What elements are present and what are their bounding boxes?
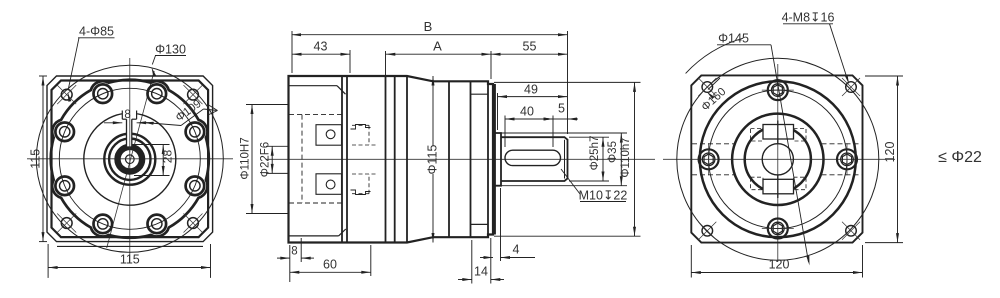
shaft bore ring [118,147,143,172]
hidden cavity bottom [289,202,342,204]
svg-text:4: 4 [513,243,520,257]
corner hole BL (4-phi8.5) [61,218,72,229]
svg-text:40: 40 [520,105,534,119]
svg-text:Φ110H7: Φ110H7 [239,137,251,179]
dim ext shaft end [567,31,569,134]
hidden bore line top [692,143,735,145]
label M10 leader [561,169,580,194]
dim 8 keyway [104,122,122,124]
output flange right face band [494,84,496,235]
left view square flange outline [47,76,213,242]
lower keyway mask [763,179,794,194]
socket screw bottom [768,219,788,239]
dim 115 left [42,76,44,242]
dim 60 ext [370,245,372,276]
left view bottom lip line [57,245,203,247]
svg-text:Φ145: Φ145 [718,32,749,46]
svg-text:120: 120 [769,258,790,272]
screw boss bottom [316,174,342,195]
svg-text:≤ Φ22: ≤ Φ22 [938,149,982,166]
svg-text:8: 8 [124,109,130,121]
upper keyway mask [763,125,794,140]
hub circle outer [84,113,176,205]
svg-text:A: A [433,39,442,54]
svg-text:8: 8 [291,246,297,258]
dim phi25h7 [602,137,604,181]
svg-text:5: 5 [558,102,565,116]
dim 43 ext right [349,50,351,73]
right corner hole BL (M8) [702,226,713,237]
dim 49 [498,96,568,98]
dim A ext [385,51,387,76]
corner hole TR (4-phi8.5) [188,89,199,100]
dim 40 ext [504,116,506,148]
svg-text:115: 115 [29,149,43,169]
dim A [386,53,491,55]
hidden step top [351,125,371,130]
dim 120 right [897,76,899,243]
svg-text:43: 43 [314,40,328,54]
svg-text:4-Φ85: 4-Φ85 [79,25,114,39]
dim 120 bottom ext [690,245,692,278]
lower keyway hidden left [751,177,764,190]
lower keyway hidden right [794,177,807,190]
right corner hole BR (M8) [846,226,857,237]
upper keyway hidden left [751,129,764,142]
dim 60 [290,271,371,273]
corner hole BR (4-phi8.5) [188,218,199,229]
lower keyway [763,179,794,194]
svg-text:Φ25h7: Φ25h7 [589,136,601,171]
dim phi25h7 ext [569,136,609,138]
dim 14 ext [471,240,473,284]
right view square flange outline [691,75,862,242]
svg-text:B: B [424,19,433,34]
svg-text:49: 49 [524,83,538,97]
dim 8 ext [289,245,291,282]
svg-text:55: 55 [523,40,537,54]
shaft shoulder [493,133,501,186]
dim 115 left ext [39,75,47,77]
hidden bore line bottom [692,174,735,176]
body joint line 6 [448,81,450,237]
input recess bottom [289,235,339,237]
bolt hole 8 [186,123,205,142]
hidden cavity top [289,114,342,116]
dim phi22F6 ext [266,145,289,147]
left view bolt circle [59,88,200,229]
dim phi110H7 ext [246,104,289,106]
dim 120 right ext [865,75,903,77]
dim phi110H7 [251,105,253,214]
bolt hole 5 [55,123,74,142]
svg-text:14: 14 [474,265,488,279]
dim phi110h7 right [634,82,636,236]
dim 55 [491,53,568,55]
hidden step bottom [351,190,371,195]
svg-text:120: 120 [883,142,897,163]
dim phi35 ext [501,132,628,134]
socket screw left [699,149,719,169]
right view bolt circle phi145 [709,90,847,228]
right view outer circle phi160 [677,58,879,260]
dim B [292,34,568,36]
bolt hole 2 [148,215,167,234]
right view boss circle [700,81,856,237]
svg-text:115: 115 [120,253,140,267]
left view square inner chamfer line [52,81,209,238]
dim 43 [292,53,350,55]
bolt hole 3 [94,215,113,234]
right view hub circle [745,126,811,192]
upper keyway hidden right [794,129,807,142]
body joint line 3 [385,76,387,243]
dim phi115 [432,76,434,146]
right view centerline vertical [777,64,779,262]
right view bore circle [762,144,793,175]
bolt hole 4 [55,177,74,196]
bolt hole 6 [94,84,113,103]
body joint line 7 [470,81,472,237]
hub ring inner [109,139,150,180]
dim B ext left [291,31,293,73]
corner hole TL (4-phi8.5) [61,89,72,100]
right view partial arc [686,38,744,73]
dim phi110h7 right ext [494,81,641,83]
left view outer circle (phi130) [36,65,223,252]
socket screw top [768,80,788,100]
socket screw right [837,149,857,169]
keyway centerline redraw [129,109,131,152]
shaft keyway slot [505,150,561,165]
dim 14 [458,279,472,281]
center bore [126,155,135,164]
dim 4 ext [500,188,502,261]
flange inner step bottom [471,223,489,225]
right view spigot circle [732,114,823,205]
hub ring outer [104,134,155,185]
middle view centerline [266,158,655,160]
keyway slot outline [121,111,123,120]
dim 120 bottom [691,272,862,274]
left view inclined centerline [107,71,155,248]
svg-text:60: 60 [323,258,337,272]
svg-text:Φ22F6: Φ22F6 [260,142,272,177]
svg-text:Φ115: Φ115 [426,145,440,175]
dim 4 [480,257,493,259]
hidden cavity left [301,115,303,203]
bolt hole 7 [148,84,167,103]
right corner hole TL (M8) [702,82,713,93]
dim 28 [162,145,164,176]
dim phi35 [620,133,622,186]
dim 115 bottom [48,267,210,269]
keyway slot mask [122,109,137,120]
body joint line 2 [346,76,348,243]
flange inner step top [471,93,489,95]
upper keyway [763,125,794,140]
body joint line 1 [341,76,343,243]
right corner hole TR (M8) [846,82,857,93]
dim 28 ext lines [133,144,170,146]
input recess top [289,85,338,87]
dim 40 [505,118,553,120]
dim phi22F6 [271,146,273,173]
svg-text:28: 28 [161,150,175,164]
svg-text:Φ110h7: Φ110h7 [620,137,632,177]
body joint line 5 [406,76,408,243]
body joint line 4 [394,76,396,243]
left view centerline horizontal [27,158,233,160]
dim 115 bottom ext [47,244,49,278]
left view scalloped housing contour [51,80,209,238]
svg-text:4-M8↧16: 4-M8↧16 [782,11,835,25]
bolt hole 1 [186,177,205,196]
dim 49 ext [497,93,499,130]
body joint line 8 [487,81,489,237]
svg-text:M10↧22: M10↧22 [579,189,628,203]
gearbox body outline [289,76,494,243]
dim 5 [553,118,568,120]
svg-text:Φ35: Φ35 [607,141,619,163]
output shaft [501,137,568,181]
svg-text:Φ130: Φ130 [155,43,186,57]
left view centerline vertical [129,58,131,263]
screw boss top [316,125,342,146]
dim 8 middle [277,257,290,259]
right view centerline horizontal [663,158,895,160]
